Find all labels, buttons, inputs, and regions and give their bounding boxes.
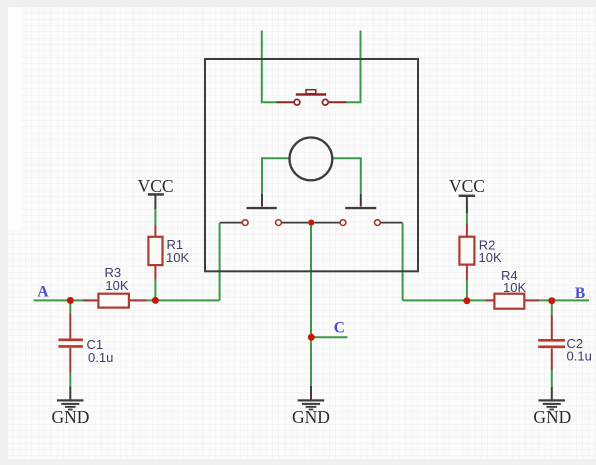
svg-text:0.1u: 0.1u [567, 349, 592, 364]
svg-text:C: C [334, 320, 345, 337]
svg-text:VCC: VCC [449, 176, 485, 196]
svg-text:10K: 10K [166, 250, 189, 265]
svg-text:10K: 10K [479, 250, 502, 265]
svg-text:A: A [37, 284, 49, 301]
svg-text:10K: 10K [503, 280, 526, 295]
svg-text:VCC: VCC [138, 176, 174, 196]
svg-text:GND: GND [52, 407, 90, 427]
svg-text:B: B [575, 285, 585, 302]
svg-text:GND: GND [533, 407, 571, 427]
svg-text:GND: GND [292, 407, 330, 427]
svg-text:10K: 10K [105, 278, 128, 293]
svg-text:0.1u: 0.1u [88, 350, 113, 365]
